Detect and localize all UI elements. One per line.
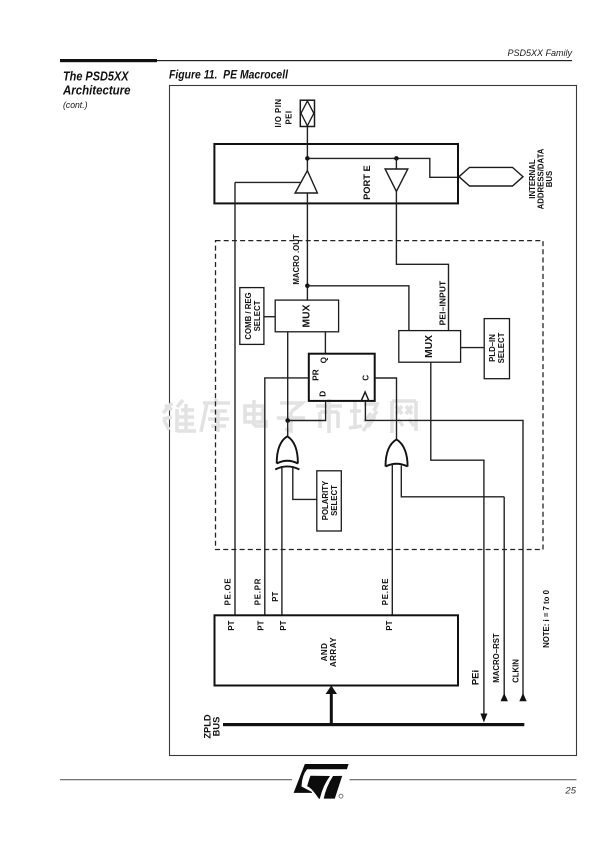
svg-text:The PSD5XX: The PSD5XX [63, 69, 130, 84]
buffer input driver (down triangle) [385, 169, 408, 192]
svg-text:SELECT: SELECT [253, 300, 262, 331]
wire PR to PE.PR [265, 378, 309, 615]
wire xor output [287, 421, 289, 437]
svg-text:MUX: MUX [424, 335, 435, 358]
wire output enable [235, 181, 301, 183]
wire mux1 comb input [287, 332, 289, 421]
flip-flop box [309, 354, 375, 401]
mux2 box [399, 331, 461, 363]
node xor output tee [285, 418, 290, 423]
市 [316, 399, 342, 433]
wire PT input [281, 466, 283, 615]
svg-text:PE.RE: PE.RE [381, 578, 390, 605]
wire PE.OE vertical [234, 182, 236, 615]
wire C clear from or gate [375, 378, 397, 439]
buffer output driver (up triangle) [295, 171, 317, 193]
场 [349, 402, 377, 431]
xor gate polarity [275, 436, 299, 469]
watermark 维库电子市场网 (simplified strokes) [163, 399, 416, 433]
svg-text:PLD–IN: PLD–IN [488, 334, 497, 362]
库 [201, 399, 230, 432]
svg-text:AND: AND [320, 643, 329, 662]
figure frame [170, 86, 577, 756]
arrowhead MACRO-RST up [501, 693, 508, 701]
footer rule right [350, 779, 577, 780]
svg-text:SELECT: SELECT [330, 485, 339, 516]
svg-text:PT: PT [227, 620, 236, 630]
svg-text:Figure 11. PE Macrocell: Figure 11. PE Macrocell [169, 67, 288, 81]
svg-text:MUX: MUX [301, 304, 312, 327]
macrocell dashed boundary [216, 241, 544, 550]
wire stub to input buffer [395, 158, 397, 169]
svg-text:BUS: BUS [545, 171, 554, 187]
header rule thin segment [157, 60, 572, 61]
svg-text:Q: Q [320, 356, 329, 363]
port E box [214, 144, 458, 203]
svg-text:Architecture: Architecture [62, 83, 130, 98]
svg-text:PR: PR [312, 369, 321, 380]
footer rule left [60, 779, 292, 780]
svg-text:NOTE: i = 7 to 0: NOTE: i = 7 to 0 [542, 589, 551, 648]
svg-text:ARRAY: ARRAY [329, 637, 338, 667]
维 [163, 403, 172, 430]
polarity select box [317, 471, 342, 531]
svg-text:C: C [362, 375, 371, 381]
svg-text:PE.PR: PE.PR [254, 578, 263, 605]
svg-text:PT: PT [279, 620, 288, 630]
wire macro-rst to or gate [401, 466, 504, 497]
svg-text:CLKIN: CLKIN [512, 659, 521, 683]
mux1 box [275, 300, 338, 332]
or gate clear [386, 439, 408, 466]
comb/reg select box [240, 288, 264, 345]
ST logo [294, 764, 349, 799]
svg-text:I/O PIN: I/O PIN [274, 98, 283, 127]
svg-text:PT: PT [385, 620, 394, 630]
zpld bus [223, 723, 524, 726]
wire mux2 to pld-in select [461, 347, 485, 349]
svg-text:MACRO–RST: MACRO–RST [492, 633, 501, 683]
header rule thick segment [60, 59, 157, 62]
node macro out branch [305, 284, 310, 289]
svg-text:PEI: PEI [285, 110, 294, 124]
wire polarity select to xor [293, 467, 317, 499]
wire MACRO.OUT vertical [306, 193, 308, 300]
svg-text:PORT E: PORT E [362, 165, 372, 200]
pld-in select box [484, 319, 509, 379]
bus arrow internal address/data [459, 167, 523, 186]
io pin symbol [300, 100, 314, 126]
svg-text:PT: PT [271, 591, 280, 601]
svg-text:PEi: PEi [471, 670, 482, 685]
wire mux1 reg input from Q [324, 332, 326, 354]
svg-text:PEI–INPUT: PEI–INPUT [437, 281, 447, 326]
wire mux2 output to PEI [431, 362, 484, 714]
svg-text:D: D [318, 391, 327, 397]
wire D input [288, 401, 326, 421]
svg-text:PSD5XX Family: PSD5XX Family [507, 48, 572, 58]
wire PEI-INPUT [396, 192, 448, 331]
svg-text:MACRO .OUT: MACRO .OUT [292, 234, 301, 284]
svg-text:PE.OE: PE.OE [224, 578, 233, 606]
网 [392, 401, 416, 433]
子 [277, 403, 305, 431]
svg-text:COMB / REG: COMB / REG [244, 292, 253, 339]
wire MACRO-RST [503, 497, 505, 700]
wire clock from CLKIN [365, 401, 523, 701]
clock edge caret [361, 392, 369, 401]
and array box [215, 615, 459, 685]
svg-text:POLARITY: POLARITY [321, 480, 330, 520]
svg-text:SELECT: SELECT [497, 332, 506, 363]
node input buffer junction [394, 156, 399, 161]
wire PE.RE input [391, 465, 393, 616]
arrowhead CLKIN up [519, 693, 526, 701]
svg-text:PT: PT [257, 620, 266, 630]
svg-text:25: 25 [564, 786, 576, 797]
电 [245, 400, 266, 426]
wire pin to buffer [306, 127, 308, 171]
wire macro out to mux2 [307, 286, 409, 331]
svg-text:(cont.): (cont.) [63, 100, 88, 110]
wire comb/reg to mux1 [264, 316, 275, 318]
bus arrow into and array [330, 692, 333, 723]
svg-text:BUS: BUS [212, 717, 222, 737]
node pin junction [305, 156, 310, 161]
wire pin bus horizontal [307, 158, 459, 177]
arrowhead PEI down [480, 714, 487, 723]
